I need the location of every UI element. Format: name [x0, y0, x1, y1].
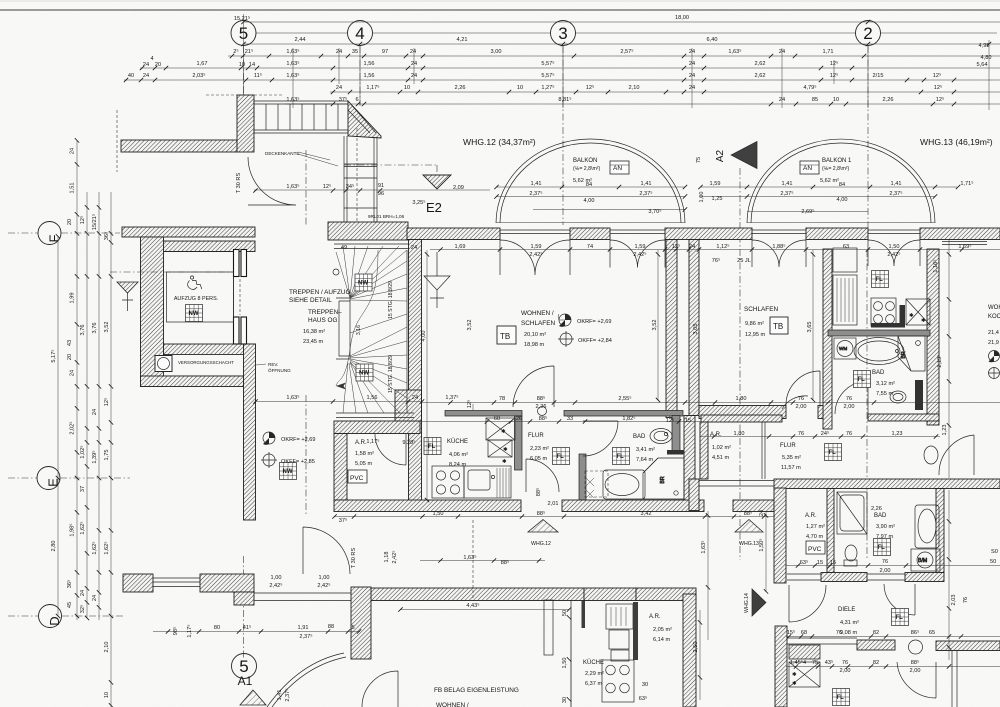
svg-text:32⁵: 32⁵ [79, 605, 86, 614]
svg-text:74: 74 [587, 244, 593, 250]
AR13 left wall [700, 422, 708, 479]
svg-text:9,08 m: 9,08 m [840, 630, 857, 636]
bottom-left pillar wall [351, 587, 371, 659]
svg-text:WOHNEN /: WOHNEN / [436, 702, 469, 707]
svg-text:20: 20 [155, 62, 161, 68]
svg-text:1,00: 1,00 [699, 192, 705, 203]
svg-text:1,62⁵: 1,62⁵ [79, 521, 86, 534]
svg-text:1,56: 1,56 [367, 395, 378, 401]
svg-text:WM: WM [839, 346, 847, 351]
svg-text:12⁵: 12⁵ [79, 216, 86, 225]
elevator tower outer top band [122, 227, 255, 237]
svg-text:3: 3 [558, 24, 567, 43]
whg13 stove [871, 298, 896, 326]
AR13 top wall [701, 415, 782, 422]
whg13 flur washbasin [924, 446, 938, 464]
whg13 FL box [872, 271, 889, 288]
svg-text:4,80: 4,80 [981, 55, 992, 61]
svg-text:2,00: 2,00 [840, 668, 851, 674]
bad12 bathtub [603, 470, 645, 499]
svg-text:1,41: 1,41 [531, 181, 542, 187]
svg-text:5,57⁵: 5,57⁵ [541, 72, 554, 79]
svg-text:1,80: 1,80 [734, 431, 745, 437]
bath14 divider wall [827, 489, 834, 573]
dim row 7 [285, 103, 1000, 105]
grid line 5 [243, 46, 245, 660]
grid circle F [8, 222, 120, 245]
svg-text:24: 24 [143, 62, 149, 68]
svg-text:1,59: 1,59 [710, 181, 721, 187]
svg-text:A.R.: A.R. [649, 614, 661, 620]
NW box stairs lower [356, 364, 373, 381]
svg-text:REV.: REV. [268, 362, 278, 367]
svg-text:1,17⁵: 1,17⁵ [366, 438, 379, 445]
svg-text:85: 85 [812, 97, 818, 103]
svg-text:11,57 m: 11,57 m [781, 465, 801, 471]
svg-text:2,29 m²: 2,29 m² [585, 671, 604, 677]
svg-text:3,00: 3,00 [491, 49, 502, 55]
svg-text:2,19⁵: 2,19⁵ [936, 354, 943, 367]
svg-text:SCHLAFEN: SCHLAFEN [744, 306, 778, 313]
whg13 kitchen partition band [828, 330, 930, 336]
svg-text:3,52: 3,52 [652, 320, 658, 331]
svg-text:2,62: 2,62 [755, 61, 766, 67]
svg-text:4,70 m: 4,70 m [806, 534, 823, 540]
WHG13 right wall [927, 249, 939, 425]
svg-text:1,56: 1,56 [364, 73, 375, 79]
svg-text:76: 76 [882, 559, 888, 565]
svg-text:1,63⁵: 1,63⁵ [700, 540, 707, 553]
svg-text:1,41: 1,41 [277, 690, 283, 701]
svg-text:1,02⁵: 1,02⁵ [79, 445, 86, 458]
whg13 bad toilet [890, 391, 906, 403]
svg-text:1,63⁵: 1,63⁵ [463, 554, 476, 561]
diele FL box [892, 609, 909, 626]
okrf symbol hall [263, 432, 275, 445]
kitchen12 fridge X [486, 418, 515, 457]
svg-text:86⁵: 86⁵ [911, 629, 920, 636]
svg-text:5,05 m: 5,05 m [355, 461, 372, 467]
svg-text:1,75: 1,75 [104, 450, 110, 461]
svg-text:25 JL: 25 JL [737, 258, 751, 264]
marker triangle A1 [240, 690, 266, 705]
svg-text:✱: ✱ [909, 312, 914, 319]
vertical extension lines top [244, 14, 990, 110]
svg-text:PVC: PVC [808, 546, 822, 553]
svg-text:4,21: 4,21 [457, 37, 468, 43]
svg-text:WOH: WOH [988, 305, 1000, 311]
svg-text:BR: BR [901, 351, 907, 358]
interior dim row y402 whg13 [700, 402, 1000, 404]
elevator tower left wall [141, 237, 164, 387]
svg-text:✱: ✱ [792, 671, 797, 678]
svg-text:✱: ✱ [503, 446, 508, 453]
vertical chain x58 [57, 236, 59, 616]
svg-text:1,98⁵: 1,98⁵ [69, 523, 76, 536]
svg-text:4,00: 4,00 [584, 198, 595, 204]
kitchen14 small cab [544, 600, 553, 655]
svg-text:1,99: 1,99 [70, 293, 76, 304]
svg-text:65: 65 [929, 630, 935, 636]
svg-text:37: 37 [80, 486, 86, 492]
grid circle 2 [856, 21, 881, 46]
svg-text:TB: TB [500, 332, 510, 341]
svg-text:1,59: 1,59 [635, 244, 646, 250]
svg-text:2,37⁵: 2,37⁵ [639, 190, 652, 197]
svg-text:DIELE: DIELE [838, 607, 855, 613]
svg-text:88⁵: 88⁵ [535, 488, 542, 497]
svg-text:2,00: 2,00 [844, 404, 855, 410]
svg-text:24: 24 [336, 85, 342, 91]
FLUR13 bottom thin wall [690, 481, 774, 487]
svg-text:1,41: 1,41 [641, 181, 652, 187]
interior dim row y421 [422, 421, 700, 423]
window sills in openings [500, 230, 987, 245]
door arc E2 corridor [248, 157, 296, 205]
elevator cell inner outline [164, 252, 234, 345]
kitchen12 stove [432, 466, 464, 498]
gallery dim row y560 [420, 560, 545, 562]
svg-text:2,26: 2,26 [871, 506, 882, 512]
svg-text:23,45 m: 23,45 m [303, 339, 324, 345]
svg-text:24: 24 [80, 590, 86, 596]
svg-text:1,45⁵4: 1,45⁵4 [790, 659, 806, 666]
svg-text:76: 76 [798, 396, 804, 402]
svg-text:2,23 m²: 2,23 m² [530, 446, 549, 452]
svg-text:5,57⁵: 5,57⁵ [541, 60, 554, 67]
svg-text:3,52: 3,52 [467, 320, 473, 331]
svg-text:24: 24 [92, 409, 98, 415]
svg-text:18,00: 18,00 [675, 15, 689, 21]
whg12 entry marker [528, 520, 558, 533]
svg-text:75: 75 [812, 660, 818, 666]
svg-text:2,00: 2,00 [796, 404, 807, 410]
svg-text:WHG.12 (34,37m²): WHG.12 (34,37m²) [463, 137, 536, 147]
svg-text:2,42⁵: 2,42⁵ [529, 251, 542, 258]
svg-text:12⁵: 12⁵ [666, 417, 675, 424]
svg-text:S0: S0 [991, 549, 998, 555]
svg-text:WHG.14: WHG.14 [744, 593, 750, 613]
svg-text:7,64 m: 7,64 m [636, 457, 653, 463]
svg-text:88⁵: 88⁵ [744, 510, 753, 517]
svg-text:24: 24 [689, 244, 695, 250]
svg-text:5,35 m²: 5,35 m² [782, 455, 801, 461]
svg-text:14: 14 [249, 62, 255, 68]
svg-text:✱: ✱ [921, 317, 926, 324]
E2 section marker triangle [423, 175, 451, 189]
svg-text:1,50: 1,50 [433, 511, 444, 517]
elevator tower inner top band [152, 241, 255, 252]
bath14 right wall [936, 489, 944, 573]
svg-text:3,16: 3,16 [356, 325, 362, 335]
bad12 shower corner [643, 458, 684, 499]
interior dim row y436 whg13 [700, 436, 940, 438]
svg-text:80: 80 [214, 625, 220, 631]
svg-text:36⁵: 36⁵ [103, 232, 110, 241]
svg-text:1,17⁵: 1,17⁵ [366, 84, 379, 91]
flur12 FL box [553, 448, 570, 465]
stair south corner block [395, 390, 422, 421]
balcony door arcs opening2 [610, 240, 665, 268]
svg-text:8,81⁵: 8,81⁵ [558, 96, 571, 103]
svg-text:15/21⁵: 15/21⁵ [91, 214, 98, 230]
svg-text:BAD: BAD [872, 370, 885, 376]
svg-text:1,71⁵: 1,71⁵ [960, 180, 973, 187]
svg-text:BAD: BAD [633, 434, 646, 440]
svg-text:41⁵: 41⁵ [243, 624, 252, 631]
svg-text:TREPPEN / AUFZUG: TREPPEN / AUFZUG [289, 289, 350, 296]
stair edges [336, 250, 414, 418]
svg-text:1,23: 1,23 [892, 431, 903, 437]
svg-text:A.R.: A.R. [805, 513, 817, 519]
stair walk line with arrow [336, 250, 378, 386]
svg-text:97: 97 [382, 49, 388, 55]
svg-text:4,95: 4,95 [979, 43, 990, 49]
whg13 counter dark edge [871, 323, 905, 328]
balcony 1 dim lines [496, 187, 685, 210]
whg14 shower pan [837, 492, 867, 534]
dim row axis spans [243, 43, 1000, 45]
svg-text:1,51: 1,51 [70, 183, 76, 194]
svg-text:88: 88 [328, 624, 334, 630]
svg-text:3,76: 3,76 [92, 323, 98, 334]
svg-text:5: 5 [351, 625, 354, 631]
interior dim row y402 whg12 [422, 402, 700, 404]
svg-text:OKRF= +2,69: OKRF= +2,69 [281, 437, 316, 443]
interior dim row y401 hall [255, 401, 422, 403]
whg13 flur FL box [825, 444, 842, 461]
svg-text:1,50: 1,50 [889, 244, 900, 250]
AR12 door arc [375, 434, 406, 465]
svg-text:21,9: 21,9 [988, 340, 999, 346]
svg-text:3,25⁵: 3,25⁵ [412, 199, 425, 206]
svg-text:2,42⁵: 2,42⁵ [269, 582, 282, 589]
balcony 2 arch [747, 139, 935, 223]
svg-text:2,80: 2,80 [51, 541, 57, 552]
svg-text:15,21⁵: 15,21⁵ [234, 15, 250, 22]
svg-text:15: 15 [685, 418, 691, 424]
whg14 shower X [789, 662, 820, 687]
svg-text:1,63⁵: 1,63⁵ [286, 394, 299, 401]
svg-text:1,69: 1,69 [455, 244, 466, 250]
partition right of living door [564, 411, 683, 417]
svg-text:1,50⁵: 1,50⁵ [758, 538, 765, 551]
dashed ceiling edge line left of wall [117, 95, 284, 172]
svg-text:7,55 m: 7,55 m [876, 391, 893, 397]
vertical chain x87 [86, 192, 88, 618]
svg-text:BALKON 1: BALKON 1 [822, 158, 852, 164]
svg-text:1,18: 1,18 [384, 552, 390, 563]
svg-text:3,90 m²: 3,90 m² [876, 524, 895, 530]
svg-text:9,28⁵: 9,28⁵ [402, 439, 415, 446]
whg14 bad toilet [844, 545, 857, 566]
svg-text:2,37⁵: 2,37⁵ [299, 633, 312, 640]
svg-text:DECKENKANTE: DECKENKANTE [265, 151, 299, 156]
svg-text:2,01: 2,01 [548, 501, 559, 507]
svg-text:T 30 RS: T 30 RS [351, 548, 357, 569]
window door arcs whg13 right [868, 240, 920, 266]
wheelchair symbol [188, 276, 202, 290]
svg-text:24: 24 [411, 245, 417, 251]
svg-text:2,55⁵: 2,55⁵ [618, 395, 631, 402]
svg-text:4,31 m²: 4,31 m² [840, 620, 859, 626]
svg-text:88⁵: 88⁵ [537, 395, 546, 402]
svg-text:60: 60 [494, 416, 500, 422]
svg-text:82: 82 [873, 660, 879, 666]
elevator tower right wall lower [244, 344, 256, 520]
grid axis horizontal line [256, 32, 997, 34]
kitchen14 cabinet striped [606, 604, 633, 661]
balcony door arcs opening1 [500, 240, 570, 275]
svg-text:15 STG. 18,8/29: 15 STG. 18,8/29 [388, 281, 394, 319]
svg-text:88⁵: 88⁵ [537, 510, 546, 517]
svg-text:4,79⁵: 4,79⁵ [803, 84, 816, 91]
bottom left door arc [362, 671, 398, 707]
svg-text:21,4: 21,4 [988, 330, 999, 336]
svg-text:88⁵: 88⁵ [911, 659, 920, 666]
living room door arc [513, 366, 554, 407]
interior vertical dim stubs [427, 250, 813, 640]
flur12 entry door arc [526, 459, 559, 492]
svg-text:2,37⁵: 2,37⁵ [889, 190, 902, 197]
svg-text:1,12⁵: 1,12⁵ [716, 243, 729, 250]
whg14 marker arrow [752, 589, 766, 616]
svg-text:1,82⁵: 1,82⁵ [622, 415, 635, 422]
svg-text:24: 24 [92, 595, 98, 601]
svg-text:24: 24 [143, 73, 149, 79]
svg-text:37⁵: 37⁵ [339, 96, 348, 103]
svg-text:10: 10 [239, 62, 245, 68]
svg-text:2,00: 2,00 [880, 568, 891, 574]
D-row wall bottom-left [123, 574, 153, 592]
svg-text:26: 26 [516, 416, 522, 422]
whg13 kitchen counter top [833, 248, 857, 272]
AR left wall WHG12 [334, 434, 347, 501]
svg-text:36⁵: 36⁵ [66, 580, 73, 589]
svg-text:2,09: 2,09 [453, 185, 464, 191]
versorgungsschacht square [155, 356, 172, 372]
svg-text:✱: ✱ [501, 428, 506, 435]
svg-text:E2: E2 [426, 200, 442, 215]
svg-text:A.R.: A.R. [710, 432, 722, 438]
svg-text:ÖFFNUNG: ÖFFNUNG [268, 367, 291, 373]
DIELE west wall lower [775, 626, 787, 707]
svg-text:33: 33 [567, 416, 573, 422]
svg-text:A.R.: A.R. [355, 440, 367, 446]
FLUR/BAD wall WHG12 [579, 454, 586, 507]
svg-text:43: 43 [67, 340, 73, 346]
svg-text:FLUR: FLUR [780, 443, 796, 449]
whg13 counter X [906, 299, 930, 325]
svg-text:1,27⁵: 1,27⁵ [541, 84, 554, 91]
whg13 wm [834, 338, 856, 359]
svg-text:2,26: 2,26 [536, 404, 547, 410]
svg-text:9RL01 BRH=1,06: 9RL01 BRH=1,06 [368, 214, 405, 219]
svg-text:24: 24 [410, 49, 416, 55]
svg-text:24: 24 [70, 148, 76, 154]
svg-text:1,59: 1,59 [531, 244, 542, 250]
whg14 ar pvc box [806, 541, 825, 554]
svg-text:34⁵: 34⁵ [346, 183, 355, 190]
svg-text:HAUS OG: HAUS OG [308, 317, 338, 324]
svg-text:1,00: 1,00 [319, 575, 330, 581]
svg-text:88⁵: 88⁵ [501, 559, 510, 566]
okff symbol hall [261, 452, 277, 468]
svg-text:40: 40 [128, 73, 134, 79]
whg14 bad FL box [874, 539, 891, 556]
svg-text:12⁵: 12⁵ [103, 398, 110, 407]
svg-text:76: 76 [842, 660, 848, 666]
svg-text:84: 84 [839, 182, 845, 188]
svg-text:5,64: 5,64 [977, 62, 988, 68]
svg-text:WHG.13 (46,19m²): WHG.13 (46,19m²) [920, 137, 993, 147]
grid line 2 [867, 46, 868, 560]
kitchen12 FL box [424, 438, 441, 455]
stair winder fan lower [343, 327, 407, 413]
svg-text:1,25: 1,25 [712, 196, 723, 202]
svg-text:82: 82 [873, 630, 879, 636]
svg-text:1,00: 1,00 [271, 575, 282, 581]
diele bath door arc [884, 584, 915, 615]
bottom dim row y609 [400, 609, 569, 611]
NW box hall [280, 463, 297, 480]
svg-text:2,10: 2,10 [629, 85, 640, 91]
WHG12/13 divider wall b [689, 240, 699, 416]
svg-text:10: 10 [404, 85, 410, 91]
svg-text:20: 20 [67, 219, 73, 225]
diele bottom door arc [897, 662, 936, 698]
bottom dim row y631 [153, 631, 360, 633]
vertical chain x77 [76, 140, 78, 620]
diele dim row y666 [786, 666, 1000, 668]
svg-text:20: 20 [67, 354, 73, 360]
svg-text:2,57⁵: 2,57⁵ [620, 48, 633, 55]
svg-text:4,00: 4,00 [421, 331, 427, 342]
svg-text:10: 10 [833, 97, 839, 103]
NW box stairs upper [355, 274, 372, 291]
svg-text:6,14 m: 6,14 m [653, 637, 670, 643]
svg-text:76: 76 [846, 431, 852, 437]
svg-text:TREPPEN–: TREPPEN– [308, 309, 342, 316]
svg-text:15⁵: 15⁵ [787, 629, 796, 636]
interior dim row y249 [430, 249, 1000, 251]
svg-text:75: 75 [696, 157, 702, 163]
svg-text:8,24 m: 8,24 m [449, 462, 466, 468]
svg-text:2,42⁵: 2,42⁵ [887, 251, 900, 258]
svg-text:TB: TB [773, 322, 783, 331]
balcony door arcs whg13 [752, 240, 806, 267]
svg-text:2,02⁵: 2,02⁵ [69, 421, 76, 434]
stair landing [336, 298, 350, 359]
svg-text:✱: ✱ [502, 458, 507, 465]
svg-text:91: 91 [378, 183, 384, 189]
stair mid diagonal [350, 314, 407, 333]
svg-text:WHG.13: WHG.13 [739, 541, 759, 547]
svg-text:A2: A2 [715, 149, 726, 162]
svg-text:20,10 m²: 20,10 m² [524, 332, 546, 338]
svg-text:76: 76 [798, 431, 804, 437]
svg-text:12⁵: 12⁵ [466, 400, 473, 409]
svg-text:1,67: 1,67 [197, 61, 208, 67]
svg-text:1,69⁵: 1,69⁵ [958, 243, 971, 250]
svg-text:88⁵: 88⁵ [539, 415, 548, 422]
svg-text:5,17⁵: 5,17⁵ [50, 349, 57, 362]
diele dim row y636 [786, 636, 1000, 638]
svg-text:3,12 m²: 3,12 m² [876, 381, 895, 387]
svg-text:2,03⁵: 2,03⁵ [192, 72, 205, 79]
svg-text:6: 6 [355, 97, 358, 103]
bad12 wm dashed [585, 471, 608, 497]
